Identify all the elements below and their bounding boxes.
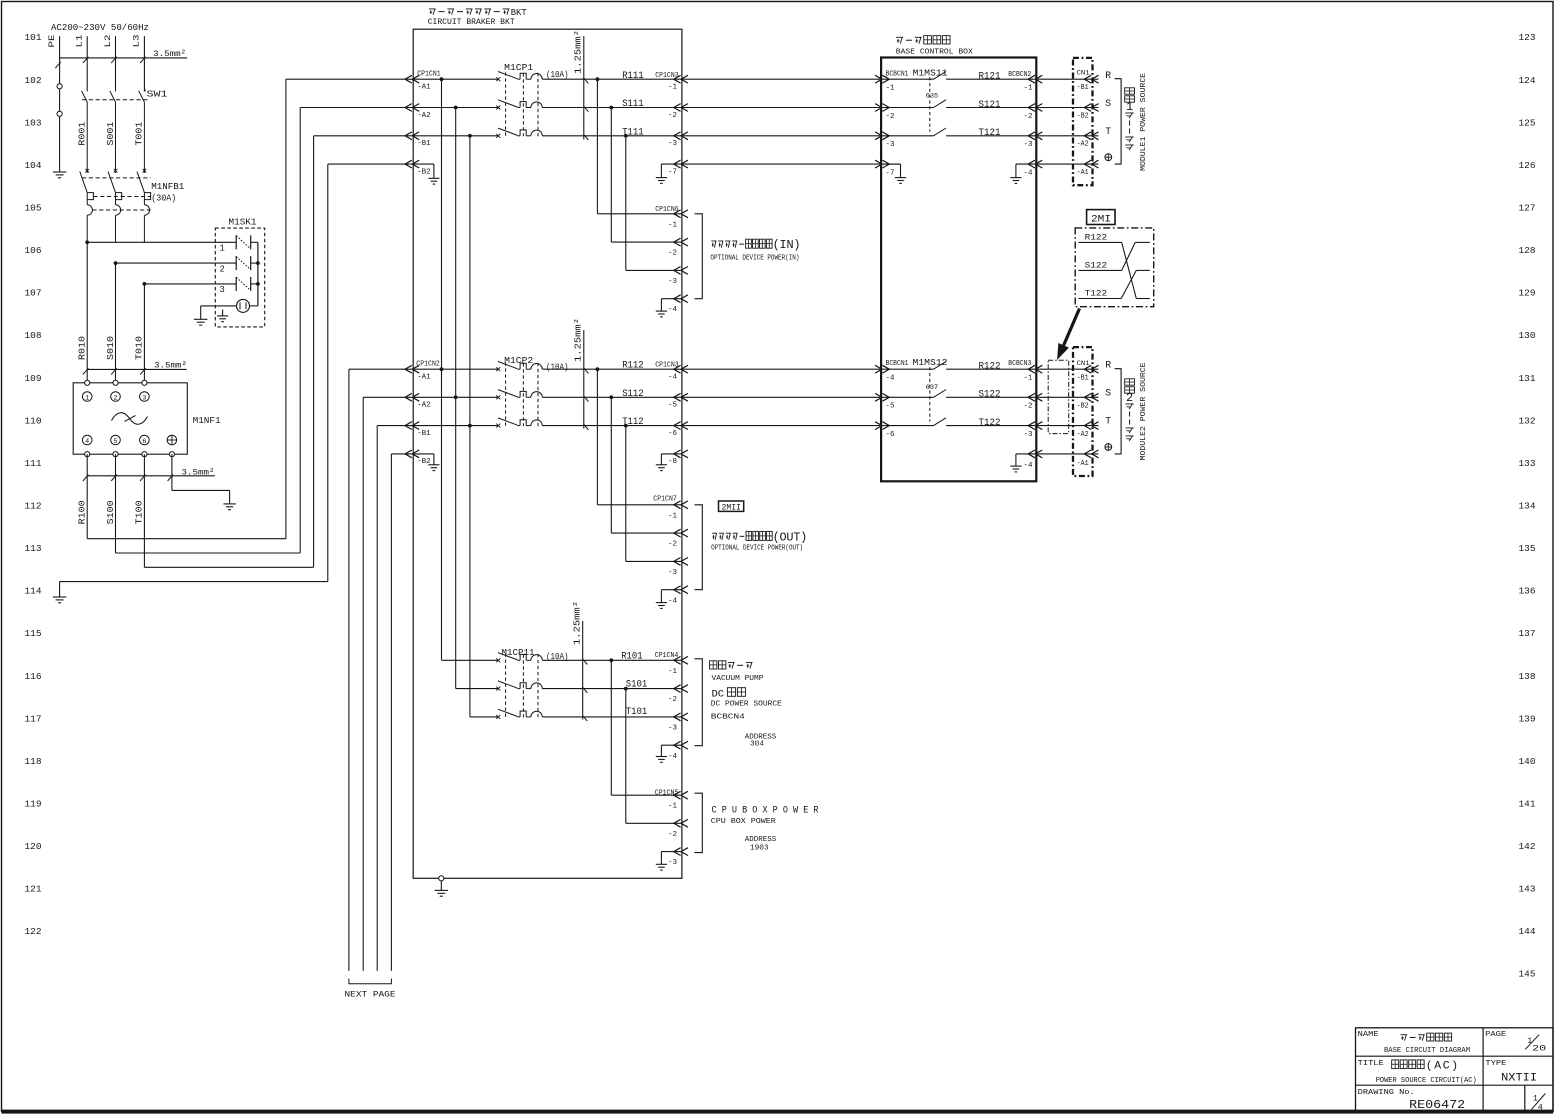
- svg-text:OPTIONAL DEVICE POWER(OUT): OPTIONAL DEVICE POWER(OUT): [711, 544, 803, 552]
- svg-text:DRAWING No.: DRAWING No.: [1358, 1089, 1415, 1097]
- svg-text:-2: -2: [668, 112, 677, 120]
- ground CP1CN5-3: [656, 852, 682, 871]
- svg-text:CP1CN1: CP1CN1: [417, 70, 441, 78]
- svg-text:108: 108: [25, 330, 42, 341]
- switch M1MS12: [881, 357, 1036, 425]
- svg-text:126: 126: [1519, 160, 1536, 171]
- node L1: [75, 35, 85, 48]
- svg-text:121: 121: [25, 884, 42, 895]
- ground CP1CN2-B2: [413, 454, 439, 471]
- circuit protector M1CP1 (10A): [496, 62, 568, 138]
- svg-text:R: R: [1105, 70, 1111, 81]
- svg-text:4: 4: [1538, 1102, 1543, 1112]
- svg-text:T101: T101: [626, 707, 648, 718]
- svg-text:115: 115: [25, 628, 42, 639]
- label CPU BOX POWER: [711, 805, 819, 853]
- svg-text:3: 3: [220, 285, 225, 295]
- svg-text:-1: -1: [1024, 85, 1033, 93]
- svg-text:S111: S111: [622, 99, 644, 110]
- svg-text:142: 142: [1519, 841, 1536, 852]
- svg-text:-B2: -B2: [1077, 112, 1089, 120]
- wire earth module1 in base box: [881, 163, 900, 165]
- svg-text:1.25mm²: 1.25mm²: [573, 601, 583, 645]
- svg-text:S: S: [1105, 388, 1111, 399]
- svg-text:127: 127: [1519, 202, 1536, 213]
- connector CP1CN2: [405, 361, 440, 467]
- wire CP1CN2-A1 to M1CP2: [413, 368, 498, 370]
- wire R121: [979, 72, 1001, 83]
- left grid row numbers: [25, 32, 42, 937]
- svg-text:BCBCN3: BCBCN3: [1008, 360, 1031, 368]
- wire CP1CN2-A1 to next page: [349, 369, 413, 971]
- node earth module1: [1105, 154, 1112, 161]
- svg-text:CN1: CN1: [1077, 69, 1090, 77]
- wire CP1CN2-B1 to M1CP2: [413, 425, 498, 427]
- ground PE rail: [53, 597, 66, 603]
- svg-text:R010: R010: [78, 336, 88, 360]
- wire CP1CN2-A2 to next page: [363, 397, 413, 971]
- svg-text:M1CP1: M1CP1: [504, 62, 533, 73]
- svg-text:-2: -2: [668, 696, 677, 704]
- connector CN1 (module1): [1036, 58, 1098, 185]
- svg-text:DC POWER SOURCE: DC POWER SOURCE: [711, 701, 782, 709]
- svg-text:-A2: -A2: [1077, 431, 1089, 439]
- label NEXT PAGE: [345, 979, 396, 1000]
- svg-text:S001: S001: [106, 122, 116, 146]
- svg-text:): ): [1451, 1060, 1458, 1073]
- svg-text:L2: L2: [103, 35, 113, 48]
- svg-text:S: S: [1105, 98, 1111, 109]
- svg-text:129: 129: [1519, 288, 1536, 299]
- svg-text:124: 124: [1519, 75, 1536, 86]
- wire S101: [542, 680, 682, 691]
- svg-text:136: 136: [1519, 586, 1536, 597]
- svg-text:-A2: -A2: [417, 112, 431, 120]
- svg-text:-1: -1: [668, 668, 677, 676]
- svg-text:R001: R001: [78, 122, 88, 146]
- phase swap box 2MI (R122/S122/T122): [1075, 228, 1154, 307]
- connector CP1CN7: [653, 495, 688, 605]
- wire S001: [106, 122, 116, 146]
- wire gauge 1.25mm2 (M1CP2): [574, 318, 589, 430]
- svg-text:137: 137: [1519, 628, 1536, 639]
- svg-text:-2: -2: [1024, 113, 1033, 121]
- wire gauge 1.25mm2 (M1CP11): [573, 601, 588, 721]
- svg-text:-1: -1: [668, 512, 677, 520]
- svg-text:-4: -4: [668, 306, 677, 314]
- svg-text:T122: T122: [979, 418, 1001, 429]
- svg-text:-3: -3: [886, 141, 895, 149]
- bracket module2 power: [1115, 369, 1122, 454]
- svg-text:T100: T100: [135, 500, 145, 524]
- circuit protector M1CP11 (10A): [496, 647, 568, 719]
- wire gauge 3.5mm2 (filter input): [83, 361, 187, 375]
- node R module2: [1105, 360, 1111, 371]
- svg-text:-5: -5: [668, 402, 677, 410]
- svg-text:1.25mm²: 1.25mm²: [574, 318, 584, 362]
- ground M1SK1 (internal): [217, 310, 228, 322]
- svg-text:-B1: -B1: [417, 430, 431, 438]
- svg-text:NAME: NAME: [1358, 1031, 1379, 1039]
- svg-text:PAGE: PAGE: [1485, 1031, 1506, 1039]
- svg-text:114: 114: [25, 586, 42, 597]
- svg-text:R122: R122: [1085, 232, 1108, 242]
- ground CP1CN1-B2: [413, 164, 439, 184]
- svg-text:M1NFB1: M1NFB1: [151, 181, 184, 192]
- label optional device power (IN): [710, 238, 800, 262]
- wire R100: [78, 79, 414, 539]
- svg-text:-A1: -A1: [1077, 460, 1089, 468]
- label optional device power (OUT): [711, 530, 807, 552]
- svg-text:M1CP2: M1CP2: [504, 355, 533, 366]
- svg-text:107: 107: [25, 288, 42, 299]
- svg-text:110: 110: [25, 415, 42, 426]
- wire S100: [106, 108, 413, 554]
- svg-text:3.5mm²: 3.5mm²: [154, 361, 187, 371]
- svg-text:CP1CN7: CP1CN7: [653, 495, 677, 503]
- wire CP1CN6-2: [611, 108, 682, 243]
- svg-text:BCBCN1: BCBCN1: [886, 360, 909, 368]
- svg-text:R112: R112: [622, 361, 644, 372]
- svg-text:POWER SOURCE CIRCUIT(AC): POWER SOURCE CIRCUIT(AC): [1376, 1077, 1477, 1085]
- svg-text:101: 101: [25, 32, 42, 43]
- wire earth to base box (module1): [682, 163, 881, 165]
- wire CP1CN6-1: [597, 79, 682, 214]
- svg-text:-B1: -B1: [1077, 84, 1089, 92]
- svg-text:122: 122: [25, 926, 42, 937]
- svg-text:-1: -1: [1024, 374, 1033, 382]
- connector CP1CN3 (module1): [655, 72, 688, 177]
- svg-text:L3: L3: [132, 35, 142, 48]
- wire T112: [542, 417, 682, 428]
- svg-text:-3: -3: [668, 140, 677, 148]
- title block: [1356, 1028, 1554, 1113]
- svg-text:130: 130: [1519, 330, 1536, 341]
- svg-text:-B1: -B1: [1077, 374, 1089, 382]
- svg-text:304: 304: [750, 740, 764, 748]
- svg-text:CIRCUIT BRAKER BKT: CIRCUIT BRAKER BKT: [428, 17, 515, 27]
- svg-text:3.5mm²: 3.5mm²: [153, 49, 186, 59]
- svg-text:-A1: -A1: [417, 84, 431, 92]
- svg-text:-1: -1: [886, 85, 895, 93]
- svg-text:C P U B O X P O W E R: C P U B O X P O W E R: [712, 805, 819, 816]
- arrester M1SK1-1: [220, 235, 251, 253]
- wire T112 to base box: [682, 425, 881, 427]
- wire CP1CN2-B2 to next page: [391, 454, 413, 971]
- link label 2MI: [1087, 210, 1115, 226]
- svg-text:-3: -3: [668, 278, 677, 286]
- bracket CP1CN6: [695, 214, 703, 299]
- svg-text:M1NF1: M1NF1: [193, 415, 221, 426]
- svg-text:104: 104: [25, 160, 42, 171]
- svg-text:R121: R121: [979, 72, 1001, 83]
- svg-text:1: 1: [85, 395, 89, 403]
- svg-text:112: 112: [25, 500, 42, 511]
- svg-text:M1CP11: M1CP11: [502, 647, 535, 658]
- svg-text:CP1CN2: CP1CN2: [416, 361, 440, 369]
- wire M1SK1 output bus: [250, 242, 260, 306]
- svg-text:141: 141: [1519, 798, 1536, 809]
- node S module1: [1105, 98, 1111, 109]
- svg-text:S121: S121: [979, 100, 1001, 111]
- svg-text:2: 2: [1126, 391, 1133, 405]
- connector CP1CN3 (module2 pins): [655, 362, 688, 467]
- wire L1 junction to M1SK1: [85, 240, 236, 382]
- wire T100: [135, 136, 414, 568]
- svg-text:-4: -4: [1024, 462, 1033, 470]
- svg-text:-7: -7: [668, 169, 677, 177]
- arrow to module2 CN1: [1058, 309, 1080, 359]
- svg-text:4: 4: [85, 438, 89, 446]
- wire L3 junction to M1SK1: [143, 282, 237, 383]
- svg-text:143: 143: [1519, 884, 1536, 895]
- svg-text:-B2: -B2: [417, 169, 431, 177]
- svg-text:R122: R122: [979, 361, 1001, 372]
- svg-text:BASE CONTROL BOX: BASE CONTROL BOX: [896, 48, 974, 56]
- svg-text:-A2: -A2: [417, 402, 431, 410]
- svg-text:ADDRESS: ADDRESS: [745, 836, 777, 844]
- svg-text:120: 120: [25, 841, 42, 852]
- svg-text:-5: -5: [886, 403, 895, 411]
- svg-text:113: 113: [25, 543, 42, 554]
- svg-text:139: 139: [1519, 713, 1536, 724]
- svg-text:3.5mm²: 3.5mm²: [182, 468, 215, 478]
- label vacuum pump / DC power source: [710, 661, 782, 749]
- svg-text:(30A): (30A): [151, 193, 176, 204]
- wire S111: [542, 99, 682, 110]
- svg-text:1: 1: [220, 244, 225, 254]
- wire S112 to base box: [682, 396, 881, 398]
- wire S111 to base box: [682, 107, 881, 109]
- wire CP1CN2-B1 to next page: [377, 426, 413, 971]
- svg-text:CP1CN4: CP1CN4: [655, 652, 679, 660]
- svg-text:NXTII: NXTII: [1501, 1072, 1537, 1084]
- svg-text:103: 103: [25, 117, 42, 128]
- node earth module2: [1105, 444, 1112, 451]
- svg-text:RE06472: RE06472: [1409, 1098, 1465, 1112]
- svg-text:20: 20: [1532, 1044, 1546, 1054]
- svg-text:T010: T010: [135, 336, 145, 360]
- wire S121: [979, 100, 1001, 111]
- svg-text:S010: S010: [106, 336, 116, 360]
- node R module1: [1105, 70, 1111, 81]
- svg-text:MODULE2 POWER SOURCE: MODULE2 POWER SOURCE: [1140, 362, 1148, 460]
- node L3: [132, 35, 142, 48]
- svg-text:R100: R100: [78, 500, 88, 524]
- label module2 power source: [1125, 362, 1149, 460]
- svg-text:T121: T121: [979, 128, 1001, 139]
- svg-text:3: 3: [142, 395, 146, 403]
- svg-text:1.25mm²: 1.25mm²: [574, 30, 584, 74]
- svg-text:-3: -3: [668, 725, 677, 733]
- wire CP1CN1-A2 to M1CP1: [413, 106, 498, 110]
- bracket CP1CN4: [695, 659, 703, 746]
- svg-text:123: 123: [1519, 32, 1536, 43]
- ground M1SK1 (external): [194, 306, 207, 325]
- svg-text:): ): [793, 238, 800, 252]
- svg-text:2MII: 2MII: [722, 503, 742, 513]
- svg-text:-3: -3: [1024, 431, 1033, 439]
- svg-text:R101: R101: [621, 652, 643, 663]
- svg-text:T001: T001: [135, 122, 145, 146]
- wire R122 (base box): [979, 361, 1001, 372]
- svg-text:-4: -4: [1024, 170, 1033, 178]
- ground BCBCN1-7: [881, 164, 906, 183]
- circuit protector M1CP2 (10A): [496, 355, 568, 427]
- svg-text:TITLE: TITLE: [1358, 1060, 1384, 1068]
- ground CP1CN6-4: [656, 299, 682, 317]
- ground BKT box frame: [435, 876, 448, 897]
- svg-text:-2: -2: [1024, 403, 1033, 411]
- svg-text:106: 106: [25, 245, 42, 256]
- ground BCBCN2-4: [1010, 164, 1036, 183]
- wire R112 to base box: [682, 368, 881, 370]
- svg-text:111: 111: [25, 458, 42, 469]
- svg-text:M1SK1: M1SK1: [229, 217, 257, 228]
- wire feed to M1CP11 pole3: [470, 716, 498, 718]
- svg-text:131: 131: [1519, 373, 1536, 384]
- svg-text:-2: -2: [668, 250, 677, 258]
- svg-text:1903: 1903: [750, 844, 769, 852]
- svg-text:T: T: [1105, 126, 1111, 137]
- svg-text:S100: S100: [106, 500, 116, 524]
- svg-text:135: 135: [1519, 543, 1536, 554]
- wire S112: [542, 389, 682, 400]
- ground CP1CN3-8: [656, 454, 682, 471]
- wire T122 (base box): [979, 418, 1001, 429]
- wire R010: [78, 336, 88, 360]
- node S module2: [1105, 388, 1111, 399]
- wire CP1CN7-1: [597, 369, 682, 505]
- svg-text:-3: -3: [668, 859, 677, 867]
- svg-text:(: (: [1426, 1060, 1433, 1073]
- svg-text:128: 128: [1519, 245, 1536, 256]
- wire feed to M1CP11 pole1: [442, 659, 499, 661]
- wire CP1CN1-A1 to M1CP1: [413, 77, 498, 81]
- wire S010: [106, 336, 116, 360]
- bus T feed vertical: [468, 136, 472, 717]
- svg-text:1: 1: [1126, 100, 1133, 114]
- wire T010: [135, 336, 145, 360]
- svg-text:-2: -2: [886, 113, 895, 121]
- svg-text:R: R: [1105, 360, 1111, 371]
- wire T111 to base box: [682, 135, 881, 137]
- wire gauge 3.5mm2 (supply): [55, 49, 186, 68]
- svg-text:-1: -1: [668, 803, 677, 811]
- wire CP1CN5-2: [626, 689, 682, 824]
- svg-text:A: A: [1434, 1060, 1441, 1073]
- svg-text:BCBCN4: BCBCN4: [711, 714, 745, 722]
- svg-text:-4: -4: [668, 753, 677, 761]
- connector CP1CN5: [655, 789, 688, 867]
- wire PE rail to CP1CN1-B2: [60, 164, 414, 597]
- svg-text:BCBCN2: BCBCN2: [1008, 71, 1031, 79]
- svg-text:117: 117: [25, 713, 42, 724]
- svg-text:T: T: [1105, 416, 1111, 427]
- svg-text:OPTIONAL DEVICE POWER(IN): OPTIONAL DEVICE POWER(IN): [710, 254, 799, 262]
- svg-text:2MI: 2MI: [1091, 215, 1111, 226]
- svg-text:134: 134: [1519, 500, 1536, 511]
- svg-text:116: 116: [25, 671, 42, 682]
- svg-text:NEXT PAGE: NEXT PAGE: [345, 990, 396, 1000]
- wire T111: [542, 128, 682, 139]
- label AC200~230V 50/60Hz: [51, 22, 149, 33]
- svg-text:S122: S122: [1085, 260, 1108, 270]
- surge absorber M1SK1 box: [215, 217, 264, 327]
- bus S feed vertical: [454, 108, 458, 689]
- node T module2: [1105, 416, 1111, 427]
- wire incoming supply bus: [60, 36, 188, 91]
- wire gauge 1.25mm2 (M1CP1): [574, 30, 589, 140]
- svg-text:-4: -4: [668, 373, 677, 381]
- svg-text:637: 637: [926, 384, 939, 391]
- svg-text:132: 132: [1519, 415, 1536, 426]
- wire CP1CN6-3: [626, 136, 682, 271]
- svg-text:118: 118: [25, 756, 42, 767]
- svg-text:-7: -7: [886, 170, 895, 178]
- ground PE: [53, 172, 66, 178]
- connector BCBCN2: [1008, 71, 1042, 178]
- svg-text:133: 133: [1519, 458, 1536, 469]
- svg-text:S112: S112: [622, 389, 644, 400]
- wire CP1CN7-2: [611, 397, 682, 533]
- wire S122 (base box): [979, 390, 1001, 401]
- svg-text:145: 145: [1519, 969, 1536, 980]
- ground CP1CN3-7: [656, 164, 682, 183]
- bracket module1 power: [1115, 79, 1122, 164]
- svg-text:-3: -3: [668, 569, 677, 577]
- wire T121: [979, 128, 1001, 139]
- svg-text:125: 125: [1519, 117, 1536, 128]
- svg-text:-A2: -A2: [1077, 141, 1089, 149]
- svg-text:6: 6: [142, 438, 146, 446]
- switch SW1: [82, 88, 169, 170]
- connector BCBCN3: [1008, 360, 1042, 470]
- connector CP1CN1: [405, 70, 441, 176]
- connector BCBCN1 (module2): [875, 360, 908, 439]
- wire CP1CN7-3: [626, 426, 682, 562]
- noise filter M1NF1: [73, 380, 221, 457]
- svg-text:): ): [800, 530, 807, 544]
- svg-text:635: 635: [926, 92, 939, 99]
- svg-text:M1MS11: M1MS11: [913, 67, 948, 78]
- svg-text:2: 2: [113, 395, 117, 403]
- svg-text:-A1: -A1: [417, 373, 431, 381]
- node PE: [47, 35, 57, 48]
- connector CN1 (module2): [1036, 347, 1098, 476]
- svg-text:-1: -1: [668, 221, 677, 229]
- discharge gap M1SK1: [201, 299, 250, 312]
- wire CP1CN1-B1 to M1CP1: [413, 134, 498, 138]
- wire T101: [542, 707, 682, 718]
- svg-text:C: C: [1443, 1060, 1450, 1073]
- wire R101: [542, 652, 682, 663]
- svg-text:TYPE: TYPE: [1485, 1060, 1506, 1068]
- svg-text:BASE CIRCUIT DIAGRAM: BASE CIRCUIT DIAGRAM: [1384, 1047, 1470, 1055]
- svg-text:-B2: -B2: [1077, 403, 1089, 411]
- svg-text:AC200~230V 50/60Hz: AC200~230V 50/60Hz: [51, 22, 149, 33]
- wire gauge 3.5mm2 (filter output): [83, 468, 215, 481]
- circuit breaker box BKT: [413, 8, 682, 878]
- svg-text:S101: S101: [626, 680, 648, 691]
- wire R001: [78, 122, 88, 146]
- wire R111 to base box: [682, 78, 881, 80]
- bus R feed vertical: [440, 79, 444, 660]
- wire feed to M1CP11 pole2: [456, 688, 499, 690]
- svg-text:2: 2: [220, 264, 225, 274]
- right grid row numbers: [1519, 32, 1536, 980]
- base control box: [881, 36, 1036, 482]
